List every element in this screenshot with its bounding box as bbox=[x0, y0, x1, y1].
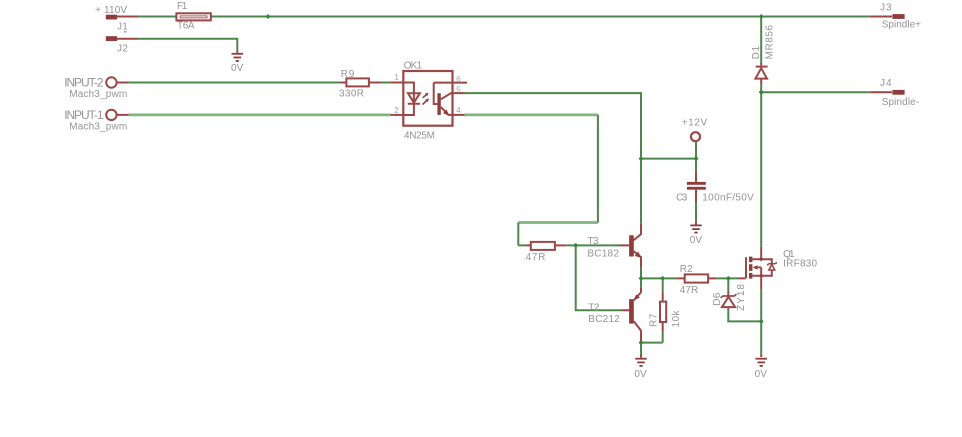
svg-text:D6: D6 bbox=[712, 292, 723, 305]
svg-text:Mach3_pwm: Mach3_pwm bbox=[69, 121, 127, 132]
svg-text:C3: C3 bbox=[676, 192, 688, 203]
svg-text:0V: 0V bbox=[231, 63, 244, 74]
svg-text:0V: 0V bbox=[634, 369, 647, 380]
svg-text:Spindle+: Spindle+ bbox=[882, 19, 921, 30]
svg-text:IRF830: IRF830 bbox=[783, 258, 817, 269]
svg-text:+ 110V: + 110V bbox=[95, 5, 127, 16]
svg-text:J2: J2 bbox=[117, 44, 128, 55]
svg-text:BC212: BC212 bbox=[588, 314, 620, 325]
svg-text:BC182: BC182 bbox=[587, 248, 619, 259]
svg-text:4: 4 bbox=[456, 106, 461, 115]
svg-text:Mach3_pwm: Mach3_pwm bbox=[69, 89, 127, 100]
svg-text:J4: J4 bbox=[880, 78, 892, 89]
svg-text:100nF/50V: 100nF/50V bbox=[702, 192, 754, 203]
svg-text:D1: D1 bbox=[751, 45, 762, 59]
svg-text:INPUT-1: INPUT-1 bbox=[64, 108, 104, 122]
svg-text:INPUT-2: INPUT-2 bbox=[64, 75, 104, 89]
svg-text:+12V: +12V bbox=[682, 118, 708, 129]
svg-text:1: 1 bbox=[394, 73, 399, 82]
svg-text:T3: T3 bbox=[587, 236, 598, 247]
svg-text:0V: 0V bbox=[690, 235, 703, 246]
svg-text:47R: 47R bbox=[526, 252, 546, 263]
svg-text:J1: J1 bbox=[117, 22, 128, 33]
svg-text:2: 2 bbox=[394, 106, 399, 115]
svg-text:T2: T2 bbox=[588, 303, 599, 314]
svg-text:J3: J3 bbox=[880, 2, 892, 13]
svg-text:6: 6 bbox=[456, 75, 461, 84]
svg-text:4N25M: 4N25M bbox=[404, 130, 435, 141]
svg-text:F1: F1 bbox=[177, 1, 188, 12]
svg-text:0V: 0V bbox=[755, 369, 768, 380]
svg-text:MR856: MR856 bbox=[764, 24, 775, 59]
svg-text:T6A: T6A bbox=[177, 21, 195, 32]
svg-text:R7: R7 bbox=[649, 313, 660, 327]
svg-text:47R: 47R bbox=[680, 285, 699, 296]
svg-text:Spindle-: Spindle- bbox=[882, 97, 920, 108]
svg-text:10k: 10k bbox=[671, 310, 682, 328]
svg-text:R2: R2 bbox=[680, 264, 693, 275]
svg-text:5: 5 bbox=[456, 85, 461, 94]
svg-text:OK1: OK1 bbox=[404, 60, 423, 71]
svg-text:ZY18: ZY18 bbox=[736, 284, 747, 311]
svg-text:R9: R9 bbox=[341, 69, 355, 80]
svg-text:330R: 330R bbox=[339, 88, 364, 99]
